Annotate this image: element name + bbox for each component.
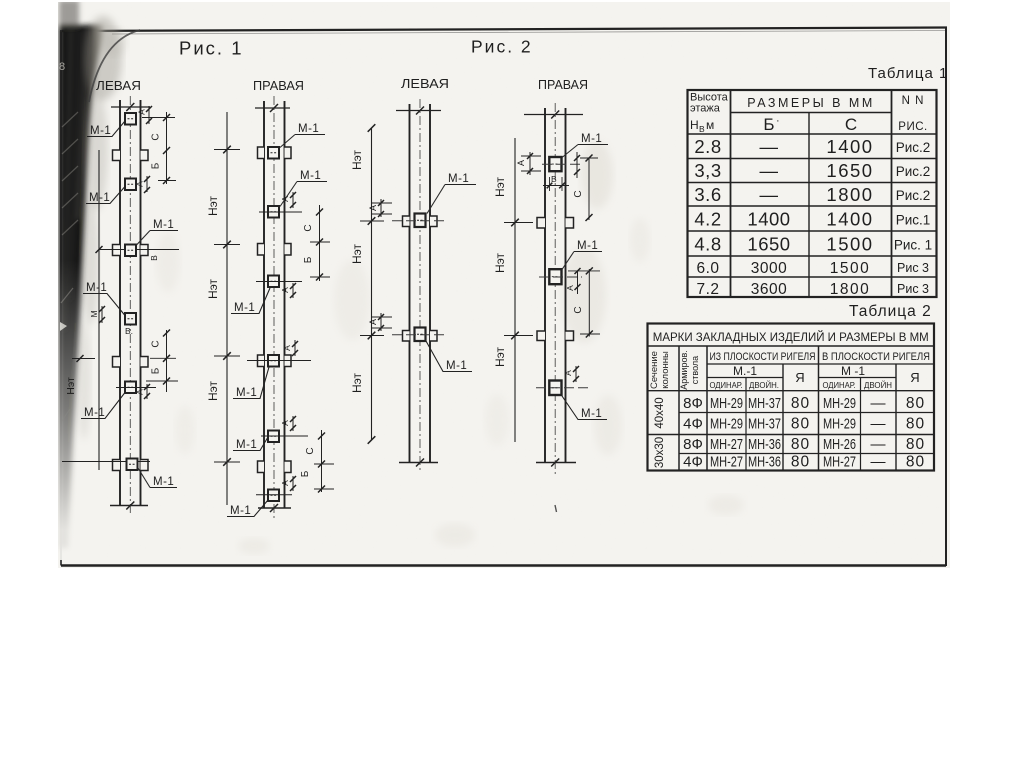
svg-text:А: А: [516, 160, 526, 166]
column 1 console 2: [113, 245, 121, 256]
svg-text:—: —: [760, 184, 779, 205]
column 2 plate M-1 #4: [268, 355, 279, 367]
svg-text:М-1: М-1: [236, 387, 257, 399]
column 1 console 4: [113, 460, 121, 471]
column 3 console 2: [403, 331, 410, 342]
svg-text:2.8: 2.8: [694, 136, 721, 157]
svg-text:В: В: [551, 174, 557, 184]
svg-text:—: —: [871, 454, 886, 471]
svg-text:Рис. 2: Рис. 2: [471, 37, 533, 57]
svg-text:М-1: М-1: [89, 192, 110, 204]
fig1 floor line mid: [99, 249, 179, 251]
svg-text:А: А: [280, 196, 290, 202]
svg-text:В ПЛОСКОСТИ РИГЕЛЯ: В ПЛОСКОСТИ РИГЕЛЯ: [822, 351, 930, 363]
svg-text:м: м: [706, 118, 714, 132]
svg-text:М-1: М-1: [234, 302, 255, 314]
svg-text:Таблица 2: Таблица 2: [849, 303, 932, 320]
column 2 plate M-1 #1: [268, 147, 279, 159]
drawing frame right line: [945, 28, 947, 566]
svg-text:8Ф: 8Ф: [683, 395, 703, 412]
book spine dark edge: [58, 0, 106, 560]
svg-text:МН-29: МН-29: [823, 395, 856, 412]
col3 dim A c1: [380, 199, 382, 217]
svg-text:Нэт: Нэт: [206, 380, 220, 401]
svg-text:В: В: [149, 255, 159, 261]
svg-text:МН-37: МН-37: [748, 416, 781, 433]
svg-text:6.0: 6.0: [696, 260, 719, 277]
svg-text:А: А: [137, 109, 147, 115]
svg-text:С: С: [303, 224, 314, 231]
table 2 title row line: [648, 345, 935, 347]
svg-text:—: —: [760, 160, 779, 181]
svg-text:С: С: [151, 133, 162, 140]
column 1 top tick: [111, 106, 150, 108]
svg-text:РИС.: РИС.: [898, 121, 927, 133]
column 3 storey line: [371, 128, 373, 440]
svg-text:РАЗМЕРЫ В ММ: РАЗМЕРЫ В ММ: [747, 96, 875, 110]
drawing frame bottom line: [61, 564, 946, 566]
table 2 frame: [648, 324, 935, 471]
column 4 bottom line: [536, 462, 576, 464]
svg-text:ДВОЙН: ДВОЙН: [864, 379, 892, 390]
col1 dim A plate2: [146, 176, 148, 192]
svg-text:1400: 1400: [826, 209, 873, 230]
column 3 axis centerline: [419, 99, 421, 472]
svg-text:1800: 1800: [830, 281, 870, 298]
svg-text:1400: 1400: [747, 209, 790, 230]
svg-text:МН-29: МН-29: [710, 395, 743, 412]
svg-text:80: 80: [906, 395, 925, 412]
col2 dim A p6: [292, 476, 294, 491]
col3 dim A c2: [380, 313, 382, 331]
svg-text:—: —: [871, 395, 886, 412]
svg-text:3.6: 3.6: [694, 184, 721, 205]
svg-text:·: ·: [776, 115, 780, 127]
svg-text:М-1: М-1: [84, 407, 105, 419]
col4 dim B below p1: [549, 177, 551, 191]
column 4 top tick: [524, 114, 583, 116]
svg-text:N N: N N: [902, 95, 925, 107]
svg-text:МН-27: МН-27: [710, 454, 743, 471]
svg-text:МН-29: МН-29: [710, 416, 743, 433]
svg-text:Нэт: Нэт: [493, 252, 507, 273]
svg-text:Н: Н: [690, 118, 699, 132]
column 1 console 1: [113, 150, 121, 161]
svg-text:М-1: М-1: [298, 123, 319, 135]
column 1 axis centerline: [129, 96, 131, 516]
svg-text:80: 80: [906, 436, 925, 453]
svg-text:МН-36: МН-36: [748, 436, 781, 453]
column 2 plate M-1 #6: [268, 490, 279, 502]
svg-text:7.2: 7.2: [696, 281, 719, 298]
svg-text:М: М: [89, 310, 99, 317]
column 1 plate M-1 #2: [125, 179, 136, 191]
column 2 plate M-1 #5: [268, 431, 279, 443]
svg-text:1650: 1650: [826, 160, 873, 181]
column 1 plate M-1 #3: [125, 245, 136, 257]
fig1 floor line lower: [72, 358, 95, 360]
svg-text:А: А: [280, 480, 290, 486]
column 2 console 3: [258, 355, 265, 367]
drawing frame top line: [62, 28, 947, 32]
column 2 console 1: [258, 147, 265, 159]
column 3 plate M-1 #1: [415, 214, 426, 228]
svg-text:М-1: М-1: [90, 125, 111, 137]
svg-text:М-1: М-1: [153, 476, 174, 488]
page curl line: [89, 30, 140, 102]
column 4 plate M-1 #1: [549, 157, 561, 171]
svg-text:40х40: 40х40: [654, 397, 666, 428]
col2 dim line C/Б upper: [319, 205, 321, 281]
svg-text:Рис.2: Рис.2: [896, 140, 931, 155]
column 4 storey line: [514, 138, 516, 442]
svg-text:МН-36: МН-36: [748, 454, 781, 471]
spine hatch marks: [62, 112, 78, 127]
svg-text:Нэт: Нэт: [206, 195, 220, 216]
col2 dim A above p5: [292, 416, 294, 431]
svg-text:ДВОЙН.: ДВОЙН.: [749, 379, 779, 390]
svg-text:колонны: колонны: [660, 351, 671, 389]
svg-text:Армиров.: Армиров.: [679, 350, 689, 390]
svg-text:Нэт: Нэт: [350, 243, 364, 264]
column 1 plate M-1 #5: [125, 382, 136, 394]
column figure 2: edges: [263, 101, 265, 508]
svg-text:Таблица 1: Таблица 1: [868, 65, 948, 82]
col2 dim A above p2: [292, 192, 294, 208]
svg-text:А: А: [368, 205, 378, 211]
svg-text:Рис. 1: Рис. 1: [179, 38, 244, 59]
svg-text:1500: 1500: [826, 234, 873, 255]
svg-text:А: А: [282, 345, 292, 351]
col1 dim M plate4: [101, 306, 103, 323]
column figure 3: edges: [409, 104, 411, 463]
column 2 storey line: [226, 112, 228, 505]
svg-text:А: А: [280, 287, 290, 293]
svg-text:МН-27: МН-27: [823, 454, 856, 471]
svg-text:ПРАВАЯ: ПРАВАЯ: [253, 78, 304, 93]
svg-text:МН-27: МН-27: [710, 436, 743, 453]
svg-text:1400: 1400: [826, 136, 873, 157]
column 1 storey dimension line: [98, 150, 100, 470]
svg-text:А: А: [135, 389, 145, 395]
svg-text:80: 80: [906, 454, 925, 471]
col1 dim line C/Б: [166, 112, 168, 184]
svg-text:ПРАВАЯ: ПРАВАЯ: [538, 77, 588, 92]
svg-text:ОДИНАР.: ОДИНАР.: [823, 380, 856, 390]
svg-text:этажа: этажа: [690, 103, 721, 115]
col2 dim line C/Б lower: [321, 430, 323, 492]
col4 dims below p2: [577, 271, 579, 295]
svg-text:С: С: [573, 190, 584, 197]
column 3 bottom line: [399, 462, 438, 464]
svg-text:Нэт: Нэт: [350, 149, 364, 170]
svg-text:МН-26: МН-26: [823, 436, 856, 453]
scanned paper sheet: [58, 2, 950, 568]
svg-text:1800: 1800: [826, 184, 873, 205]
column 4 console 1: [537, 218, 545, 229]
svg-text:Рис. 1: Рис. 1: [894, 238, 932, 253]
svg-text:Рис 3: Рис 3: [897, 282, 929, 296]
svg-text:Нэт: Нэт: [350, 372, 364, 393]
svg-text:М-1: М-1: [581, 133, 602, 145]
svg-text:3,3: 3,3: [694, 160, 721, 181]
col1 dim line C/Б lower: [166, 330, 168, 392]
svg-text:Рис.2: Рис.2: [896, 188, 931, 203]
svg-text:А: А: [368, 319, 378, 325]
svg-text:А: А: [135, 181, 145, 187]
svg-text:Сечение: Сечение: [649, 351, 660, 389]
svg-text:Б: Б: [303, 256, 314, 263]
col4 dim A right of p1: [576, 152, 578, 178]
svg-text:А: А: [565, 285, 575, 291]
svg-text:М-1: М-1: [300, 170, 321, 182]
svg-text:1500: 1500: [830, 260, 870, 277]
svg-text:М-1: М-1: [230, 505, 251, 517]
svg-text:Б: Б: [151, 367, 162, 374]
column 2 plate M-1 #3: [268, 276, 279, 288]
svg-text:М.-1: М.-1: [733, 364, 757, 378]
svg-text:80: 80: [791, 454, 810, 471]
svg-text:ЛЕВАЯ: ЛЕВАЯ: [96, 78, 141, 93]
col1 dim A top: [148, 106, 150, 124]
column 2 top tick: [255, 107, 290, 109]
svg-text:М-1: М-1: [86, 282, 107, 294]
column figure 1: edges: [119, 100, 121, 506]
column 1 plate M-1 #1: [125, 113, 136, 125]
column 4 console 2: [537, 331, 545, 341]
svg-text:С: С: [573, 306, 584, 313]
svg-text:4.8: 4.8: [694, 234, 721, 255]
svg-text:М-1: М-1: [577, 240, 598, 252]
column 4 plate M-1 #2: [549, 269, 561, 284]
svg-text:80: 80: [791, 395, 810, 412]
svg-text:Я: Я: [910, 370, 919, 385]
svg-text:Рис.1: Рис.1: [896, 213, 931, 228]
svg-text:ИЗ ПЛОСКОСТИ РИГЕЛЯ: ИЗ ПЛОСКОСТИ РИГЕЛЯ: [710, 351, 816, 363]
svg-text:Нэт: Нэт: [493, 176, 507, 197]
column 1 plate M-1 #4: [125, 313, 136, 325]
svg-text:80: 80: [791, 416, 810, 433]
col2 dim A below p3: [292, 283, 294, 298]
svg-text:3600: 3600: [751, 281, 787, 298]
svg-text:Нэт: Нэт: [493, 346, 507, 367]
svg-text:Нэт: Нэт: [65, 377, 77, 395]
svg-text:С: С: [845, 115, 857, 134]
svg-text:Нэт: Нэт: [206, 278, 220, 299]
svg-text:8Ф: 8Ф: [683, 436, 703, 453]
svg-text:ствола: ствола: [690, 356, 700, 384]
drawing frame left line: [60, 30, 62, 566]
svg-text:4.2: 4.2: [694, 209, 721, 230]
column 3 plate M-1 #2: [415, 328, 426, 342]
column 4 axis centerline: [554, 103, 556, 475]
svg-text:В: В: [699, 124, 705, 134]
svg-text:Б: Б: [151, 162, 162, 169]
column 1 bottom line: [110, 505, 148, 507]
svg-text:М-1: М-1: [581, 408, 602, 420]
svg-text:М-1: М-1: [448, 173, 469, 185]
svg-text:1650: 1650: [747, 234, 790, 255]
svg-text:4Ф: 4Ф: [683, 416, 703, 433]
svg-text:МН-29: МН-29: [823, 416, 856, 433]
svg-text:В.: В.: [125, 326, 133, 336]
svg-text:30х30: 30х30: [654, 437, 666, 468]
svg-text:МН-37: МН-37: [748, 395, 781, 412]
svg-text:Б: Б: [300, 470, 311, 477]
svg-text:—: —: [760, 136, 779, 157]
svg-text:С: С: [151, 340, 162, 347]
column 1 plate M-1 #6: [127, 459, 138, 471]
svg-text:ОДИНАР.: ОДИНАР.: [710, 380, 743, 390]
svg-text:Рис.2: Рис.2: [896, 164, 931, 179]
col4 dim A above p3: [575, 366, 577, 382]
col4 dim A left of p1: [529, 152, 531, 175]
svg-text:Рис 3: Рис 3: [897, 261, 929, 275]
svg-text:А: А: [563, 370, 573, 376]
column 2 axis centerline: [273, 96, 275, 518]
column 2 console 4: [258, 461, 265, 473]
table 1 header split: [731, 112, 892, 114]
column 2 plate M-1 #2: [268, 206, 279, 218]
column 1 console 3: [113, 357, 121, 368]
svg-text:М -1: М -1: [841, 364, 865, 378]
column 2 bottom line: [258, 507, 291, 509]
svg-text:8: 8: [59, 61, 65, 73]
svg-text:М-1: М-1: [446, 360, 467, 372]
paper blotches: [581, 141, 613, 209]
svg-text:ЛЕВАЯ: ЛЕВАЯ: [401, 76, 449, 91]
svg-text:М-1: М-1: [153, 219, 174, 231]
column 4 plate M-1 #3: [549, 381, 561, 396]
col4 dim C right of p1: [588, 158, 590, 220]
svg-text:—: —: [871, 416, 886, 433]
svg-text:Б: Б: [763, 115, 774, 134]
svg-text:—: —: [871, 436, 886, 453]
column figure 4: edges: [544, 108, 546, 463]
svg-text:4Ф: 4Ф: [683, 454, 703, 471]
col2 dim A above p4: [294, 340, 296, 356]
svg-text:М-1: М-1: [236, 439, 257, 451]
svg-text:Я: Я: [795, 370, 804, 385]
svg-text:80: 80: [906, 416, 925, 433]
svg-text:МАРКИ ЗАКЛАДНЫХ ИЗДЕЛИЙ И РАЗМ: МАРКИ ЗАКЛАДНЫХ ИЗДЕЛИЙ И РАЗМЕРЫ В ММ: [653, 329, 929, 344]
table 1 frame: [688, 90, 937, 297]
column 3 top tick: [396, 110, 441, 112]
column 2 console 2: [258, 244, 265, 256]
svg-text:80: 80: [791, 436, 810, 453]
svg-text:С: С: [305, 447, 316, 454]
column 3 console 1: [403, 216, 410, 227]
svg-text:А: А: [280, 420, 290, 426]
svg-text:3000: 3000: [751, 260, 787, 277]
fig1 floor line bottom: [62, 461, 150, 463]
